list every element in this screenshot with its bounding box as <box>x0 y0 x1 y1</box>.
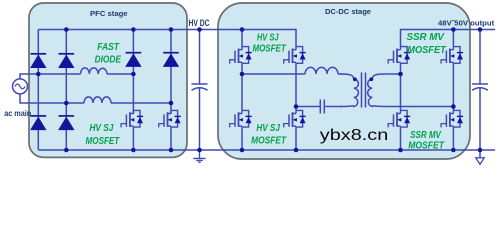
ac source <box>13 79 28 94</box>
svg-text:HV SJ: HV SJ <box>256 123 280 134</box>
transformer polarity dot (primary) <box>353 77 357 81</box>
wire: primary leg 2 (x=296) <box>295 63 297 150</box>
svg-text:ybx8.cn: ybx8.cn <box>320 127 389 144</box>
svg-text:FAST: FAST <box>97 42 119 53</box>
svg-text:48V˜50V output: 48V˜50V output <box>438 18 495 27</box>
bridge diode D1 <box>30 54 46 68</box>
node: bottom rail / secondary leg B <box>451 148 456 153</box>
svg-text:ac main: ac main <box>4 109 31 118</box>
transistor Q3 (bridge high side A) <box>230 47 252 64</box>
wire: secondary leg B <box>452 30 454 151</box>
svg-text:HV SJ: HV SJ <box>89 123 113 134</box>
node: output rail / capacitor C3 <box>478 27 483 32</box>
wire: secondary upper (transformer to leg A) <box>386 73 401 75</box>
svg-text:DIODE: DIODE <box>95 54 122 65</box>
fast diode D6 <box>163 53 179 67</box>
wire: secondary leg A <box>400 63 402 150</box>
fast diode D5 <box>125 53 141 67</box>
wire: bridge leg 2 vertical <box>65 30 67 151</box>
wire: PFC lower mid rail <box>66 102 171 104</box>
svg-text:MOSFET: MOSFET <box>252 43 286 54</box>
wire: cap to transformer primary bottom <box>325 106 342 108</box>
transistor Q10 (SR low side B) <box>441 110 463 127</box>
wire: bottom rail (shared, full width) <box>38 149 495 151</box>
inductor L3 (resonant) <box>305 67 338 74</box>
node: bottom rail / primary leg 1 <box>240 148 245 153</box>
transistor Q9 (SR low side A) <box>388 110 410 127</box>
node: primary leg 1 midpoint <box>240 72 245 77</box>
wire: fast diode leg 2 <box>170 30 172 151</box>
wire: fast diode leg 1 <box>132 30 134 151</box>
svg-text:MOSFET: MOSFET <box>251 136 287 147</box>
wire: primary upper mid (leg1 to resonant inductor) <box>242 73 305 75</box>
node: lower mid rail / boost leg 2 <box>169 101 174 106</box>
node: top rail / bridge leg 2 <box>64 27 69 32</box>
wire: primary leg 1 (x=242) <box>241 30 243 151</box>
transistor Q1 (PFC boost MOSFET 1) <box>121 110 143 127</box>
transistor Q5 (bridge low side A) <box>230 110 252 127</box>
wire: secondary top rail (output plus) <box>401 30 496 47</box>
svg-text:DC-DC stage: DC-DC stage <box>325 7 372 16</box>
svg-text:SSR MV: SSR MV <box>410 130 442 141</box>
svg-text:SSR MV: SSR MV <box>406 32 445 43</box>
transistor Q8 (SR high side B) <box>441 47 463 64</box>
node: top rail / fast diode D6 <box>169 27 174 32</box>
bridge diode D2 <box>58 54 74 68</box>
inductor L1 <box>81 68 107 74</box>
wire: PFC upper mid rail <box>38 73 133 75</box>
capacitor C1 (HV DC bus) <box>199 30 201 151</box>
capacitor C3 (output) <box>479 30 481 151</box>
node: bottom rail / bridge leg 2 <box>64 148 69 153</box>
node: bottom rail / primary leg 2 <box>294 148 299 153</box>
node: bottom rail / boost leg 2 <box>169 148 174 153</box>
wire: inductor to transformer primary <box>338 73 342 75</box>
wire: bridge leg 1 vertical <box>37 30 39 151</box>
node: bottom rail / secondary leg A <box>398 148 403 153</box>
wire: HV DC top rail (PFC to DC-DC primary, corner down at 296) <box>38 30 296 47</box>
transistor Q4 (bridge high side B) <box>284 47 306 64</box>
node: top rail / fast diode D5 <box>131 27 136 32</box>
wire: ac to lower rail <box>20 94 66 103</box>
wire: secondary lower (transformer to leg B) <box>386 106 453 108</box>
bridge diode D3 <box>30 116 46 130</box>
node: lower mid rail / bridge leg 2 <box>64 101 69 106</box>
svg-text:MOSFET: MOSFET <box>86 136 120 147</box>
transformer polarity dot (secondary) <box>369 77 373 81</box>
ground (earth, HV DC minus) <box>193 150 205 162</box>
svg-text:HV DC: HV DC <box>189 18 210 28</box>
node: primary leg 2 midpoint <box>294 104 299 109</box>
svg-text:PFC stage: PFC stage <box>90 9 128 18</box>
node: upper mid rail / bridge leg 1 <box>36 72 41 77</box>
node: secondary leg B midpoint <box>451 104 456 109</box>
DC-DC stage box <box>218 3 470 159</box>
transformer T1 primary winding <box>340 74 358 107</box>
node: top rail / capacitor C1 <box>197 27 202 32</box>
node: top rail / primary leg 1 <box>240 27 245 32</box>
node: output rail / secondary leg B <box>451 27 456 32</box>
node: bottom rail / capacitor C1 and ground <box>197 148 202 153</box>
node: upper mid rail / boost leg 1 <box>131 72 136 77</box>
node: bottom rail / boost leg 1 <box>131 148 136 153</box>
svg-text:MOSFET: MOSFET <box>408 141 445 152</box>
wire: ac to upper rail <box>20 74 38 79</box>
transistor Q6 (bridge low side B) <box>284 110 306 127</box>
node: secondary leg A midpoint <box>398 72 403 77</box>
transistor Q7 (SR high side A) <box>388 47 410 64</box>
svg-text:HV SJ: HV SJ <box>257 32 279 43</box>
capacitor C2 (resonant, series) <box>320 100 324 114</box>
transistor Q2 (PFC boost MOSFET 2) <box>159 110 181 127</box>
transformer T1 secondary winding <box>368 74 386 107</box>
svg-text:MOSFET: MOSFET <box>407 45 446 56</box>
inductor L2 <box>84 97 111 103</box>
ground (chassis, output minus) <box>479 150 481 157</box>
wire: primary lower mid (leg2 to cap) <box>296 106 320 108</box>
PFC stage box <box>29 3 187 157</box>
bridge diode D4 <box>58 116 74 130</box>
node: bottom rail / capacitor C3 and ground <box>478 148 483 153</box>
transformer T1 core <box>362 73 366 108</box>
